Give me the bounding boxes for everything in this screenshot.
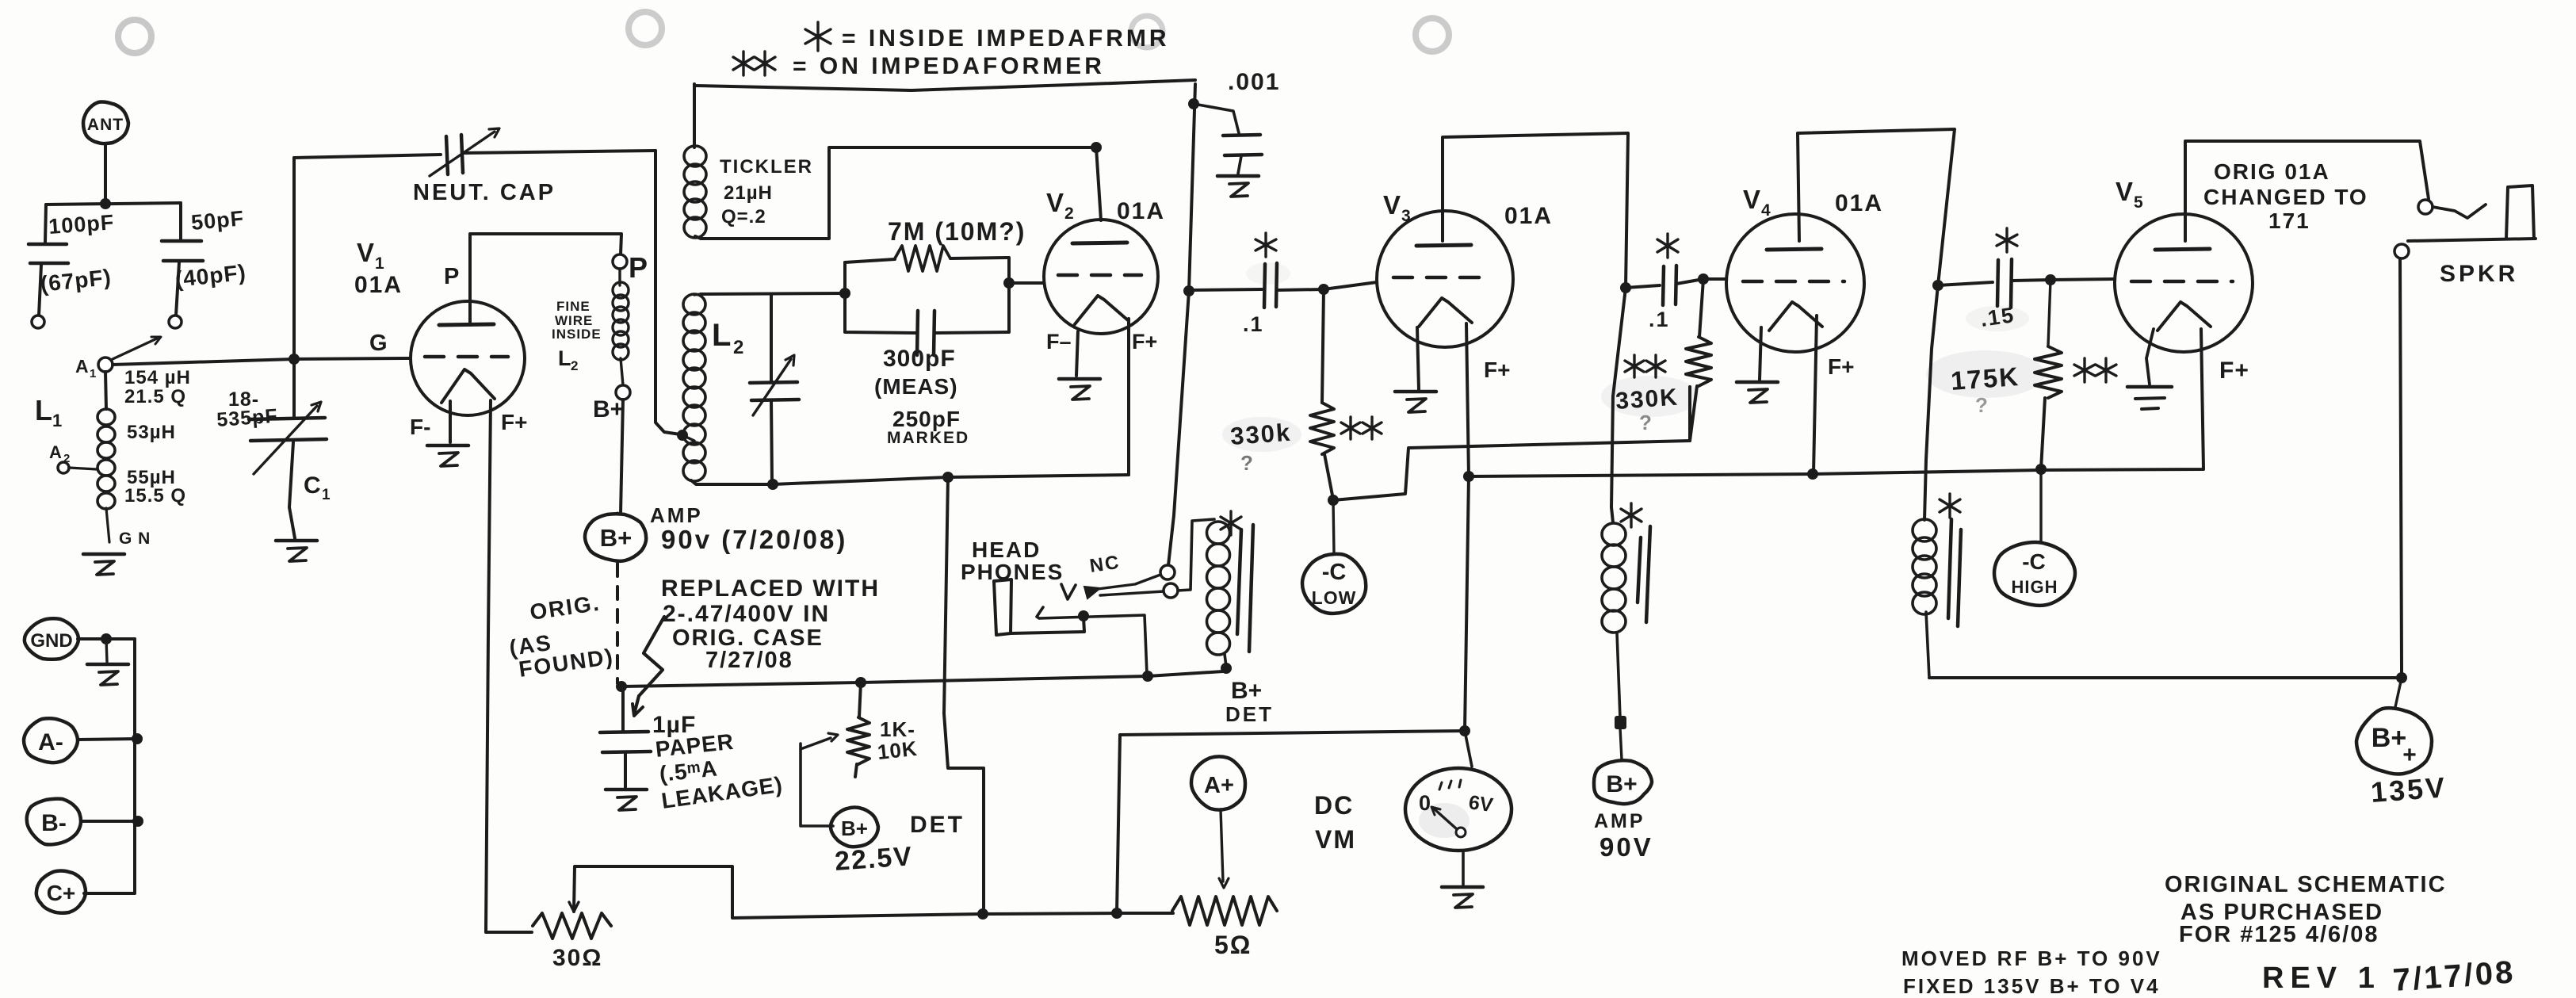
- svg-text:4: 4: [1761, 201, 1771, 220]
- speaker jack: [2506, 185, 2534, 239]
- grid leak box: [845, 258, 1009, 333]
- node V5 grid junction: [2045, 274, 2056, 285]
- svg-text:= ON IMPEDAFORMER: = ON IMPEDAFORMER: [793, 53, 1105, 79]
- node VM junction: [1459, 725, 1470, 736]
- svg-text:535pF: 535pF: [216, 405, 278, 431]
- node V4 F+ junction: [1807, 468, 1818, 480]
- label V2 01A: [1117, 198, 1165, 224]
- label 53uH: [127, 422, 176, 443]
- wire tip contact V: [1061, 584, 1076, 599]
- wire NC contact upper: [1098, 575, 1160, 589]
- svg-text:0: 0: [1419, 791, 1431, 815]
- wire ANT lead: [104, 143, 107, 204]
- svg-text:ORIGINAL SCHEMATIC: ORIGINAL SCHEMATIC: [2165, 872, 2447, 897]
- wire V4 F+ lead: [1814, 315, 1817, 473]
- wire grid bus A1 to V1: [113, 358, 409, 365]
- inductor impedaformer choke V3: [1602, 523, 1626, 718]
- punch hole: [629, 12, 662, 45]
- label REV 1: [2262, 962, 2381, 995]
- svg-text:HEAD: HEAD: [972, 537, 1041, 562]
- wire -C HIGH lead: [2039, 469, 2042, 541]
- label V4 F+: [1828, 354, 1854, 379]
- svg-text:= INSIDE IMPEDAFRMR: = INSIDE IMPEDAFRMR: [842, 25, 1170, 52]
- svg-text:MOVED RF B+ TO 90V: MOVED RF B+ TO 90V: [1901, 946, 2162, 970]
- svg-text:F+: F+: [2219, 358, 2249, 384]
- smudge: [1966, 306, 2029, 331]
- node riser bottom junction: [1111, 908, 1122, 919]
- terminal -C LOW: [1302, 554, 1366, 614]
- label V2 F+: [1132, 330, 1157, 354]
- svg-text:7M (10M?): 7M (10M?): [888, 217, 1026, 246]
- svg-text:MARKED: MARKED: [887, 429, 969, 447]
- svg-text:NEUT. CAP: NEUT. CAP: [413, 180, 556, 205]
- capacitor 1uF: [600, 686, 651, 787]
- label 18-535pF: [216, 388, 278, 431]
- svg-text:REV 1: REV 1: [2262, 962, 2381, 995]
- svg-text:AMP: AMP: [650, 503, 703, 527]
- label ? V5: [1975, 393, 1988, 417]
- svg-text:F+: F+: [501, 410, 527, 434]
- ground .001: [1217, 176, 1259, 197]
- node impedaformer bottom: [1221, 663, 1232, 674]
- wire Bpp lead: [2395, 678, 2402, 707]
- tube V5: [2115, 214, 2253, 352]
- svg-text:V: V: [357, 238, 374, 267]
- wire dashed orig: [616, 564, 619, 683]
- label L2: [712, 318, 743, 358]
- label 5ohm: [1214, 931, 1252, 959]
- resistor 175K: [2035, 280, 2062, 469]
- wire plug bottom lead: [1011, 618, 1084, 633]
- label V3: [1383, 190, 1411, 225]
- wire cap1 to V3 grid: [1277, 282, 1377, 290]
- svg-text:F–: F–: [1046, 330, 1072, 354]
- wire VM bus left: [1117, 731, 1465, 913]
- svg-text:2: 2: [571, 358, 578, 373]
- label 15.5Q: [124, 485, 186, 507]
- wire V1 F- lead: [449, 401, 452, 442]
- terminal B+ amp: [585, 514, 646, 561]
- wire neut top left: [294, 155, 441, 158]
- svg-text:330k: 330k: [1229, 419, 1292, 450]
- tube V1: [411, 301, 525, 415]
- label AMP 90V: [1594, 810, 1653, 862]
- svg-text:1: 1: [90, 367, 96, 380]
- svg-text:+: +: [2402, 742, 2417, 768]
- wire GND ground lead: [106, 639, 107, 662]
- inductor L2 secondary: [682, 294, 705, 481]
- wire V2 output drop: [1168, 84, 1195, 565]
- wire -C low bus: [1333, 387, 1690, 500]
- terminal 50pF end: [169, 315, 182, 328]
- label ? V3: [1240, 451, 1253, 475]
- svg-text:FIXED 135V B+ TO V4: FIXED 135V B+ TO V4: [1903, 974, 2161, 998]
- wire 50pF bottom lead: [176, 262, 179, 315]
- label FINE WIRE INSIDE: [552, 299, 602, 342]
- label V4 01A: [1835, 190, 1883, 216]
- svg-text:1: 1: [322, 487, 331, 503]
- label DC VM: [1314, 791, 1356, 854]
- wire neut drop to L2 tap: [655, 151, 680, 434]
- label .1 b: [1649, 308, 1670, 331]
- svg-text:01A: 01A: [1117, 198, 1165, 224]
- label SPKR: [2440, 261, 2518, 287]
- wire V3 plate loop: [1443, 133, 1628, 522]
- smudge: [1246, 262, 1290, 285]
- svg-text:01A: 01A: [1504, 203, 1553, 229]
- ground V1 F-: [427, 445, 468, 466]
- punch hole: [1416, 18, 1449, 52]
- label V1: [357, 238, 384, 273]
- svg-text:C+: C+: [47, 881, 76, 905]
- label NEUT. CAP: [413, 180, 556, 205]
- asterisk2 330K V4: [1625, 355, 1665, 377]
- wire jack bottom: [2408, 239, 2536, 241]
- asterisk cap1: [1256, 233, 1276, 257]
- jack triangle contact: [1084, 587, 1100, 598]
- svg-text:P: P: [444, 264, 459, 289]
- ground VM: [1442, 887, 1483, 908]
- svg-text:7/27/08: 7/27/08: [705, 648, 793, 673]
- svg-text:F+: F+: [1828, 354, 1854, 379]
- node A- junction: [132, 733, 143, 744]
- terminal B-: [27, 799, 81, 845]
- label 154uH 21.5Q: [124, 367, 191, 407]
- svg-text:30Ω: 30Ω: [552, 945, 602, 971]
- wire filament bus: [1469, 329, 2203, 476]
- label FIXED 135V: [1903, 974, 2161, 998]
- wire tickler bottom: [695, 147, 1094, 239]
- inductor L1 upper: [97, 372, 115, 509]
- svg-text:90v (7/20/08): 90v (7/20/08): [661, 525, 847, 554]
- resistor 5ohm: [1172, 897, 1277, 925]
- label .15: [1979, 303, 2016, 331]
- svg-text:22.5V: 22.5V: [834, 841, 914, 877]
- wire V2 F+ lead: [1127, 319, 1130, 475]
- ground L1: [83, 554, 124, 575]
- label GN: [119, 530, 151, 548]
- wire L1 bottom lead: [106, 508, 109, 542]
- node choke blob: [1615, 716, 1626, 729]
- inductor impedaformer choke V4: [1913, 519, 1936, 678]
- headphone plug: [994, 579, 1011, 635]
- node 1uF junction: [616, 681, 627, 692]
- label 175K: [1950, 361, 2020, 396]
- terminal C+: [36, 871, 86, 913]
- node pot junction: [855, 677, 866, 688]
- node V3 F+ bus junction: [1463, 471, 1474, 482]
- svg-text:300pF: 300pF: [883, 346, 956, 372]
- node L2 bottom junction: [767, 479, 778, 490]
- terminal ANT: [83, 102, 128, 144]
- wire V1 plate lead: [470, 234, 621, 325]
- wire V3 F- lead: [1417, 327, 1419, 389]
- svg-text:DC: DC: [1314, 791, 1354, 820]
- svg-text:21.5 Q: 21.5 Q: [124, 386, 186, 407]
- terminal A-: [24, 718, 78, 763]
- svg-text:5Ω: 5Ω: [1214, 931, 1252, 959]
- svg-text:HIGH: HIGH: [2012, 577, 2058, 597]
- resistor 330k V3: [1310, 289, 1334, 499]
- svg-text:V: V: [1383, 190, 1401, 220]
- node -C HIGH junction: [2035, 464, 2047, 475]
- svg-text:ORIG 01A: ORIG 01A: [2214, 159, 2330, 184]
- svg-text:171: 171: [2268, 208, 2310, 233]
- svg-text:01A: 01A: [354, 272, 403, 298]
- svg-text:TICKLER: TICKLER: [720, 156, 813, 178]
- wire right cap lead: [179, 203, 182, 239]
- wire to coupling cap 2: [1626, 285, 1660, 288]
- label HEAD PHONES: [961, 537, 1064, 584]
- svg-text:B+: B+: [593, 396, 624, 423]
- asterisk impedaformer: [1221, 511, 1241, 535]
- svg-text:FINE: FINE: [556, 299, 590, 314]
- asterisk2 175K: [2074, 358, 2116, 382]
- wire mid contact: [1037, 607, 1147, 675]
- wire V1 F+ lead long: [486, 400, 532, 932]
- label MARKED: [887, 429, 969, 447]
- ground 1uF: [606, 790, 647, 810]
- terminal B+ det: [831, 808, 878, 847]
- svg-text:A: A: [49, 442, 62, 462]
- smudge: [1222, 417, 1301, 452]
- svg-text:B+: B+: [600, 524, 633, 552]
- svg-text:?: ?: [1639, 411, 1652, 434]
- smudge: [1419, 803, 1470, 838]
- tube V3: [1377, 211, 1513, 347]
- svg-text:L: L: [558, 346, 571, 370]
- label 330K V4: [1615, 384, 1680, 415]
- legend asterisk-2 note: [733, 52, 1105, 79]
- svg-text:LOW: LOW: [1312, 587, 1357, 608]
- wire V4 plate loop: [1798, 129, 1955, 520]
- label (40pF): [174, 260, 247, 292]
- label 1uF: [652, 712, 696, 738]
- svg-text:VM: VM: [1315, 825, 1356, 854]
- capacitor 100pF: [29, 210, 115, 263]
- wire L2 bottom bus: [691, 475, 1129, 484]
- wire B- to bus: [81, 820, 138, 823]
- wire left cap lead: [45, 205, 46, 243]
- label P column L2: [558, 346, 578, 373]
- label MOVED RF: [1901, 946, 2162, 970]
- wire A+ arrow: [1219, 809, 1229, 888]
- wire VM lead: [1465, 731, 1472, 767]
- svg-text:.1: .1: [1243, 312, 1264, 336]
- label 22.5V: [834, 841, 914, 877]
- node Bpp junction: [2396, 672, 2407, 683]
- transformer core bars 1: [1237, 525, 1253, 652]
- label V5: [2115, 177, 2143, 212]
- svg-text:F+: F+: [1132, 330, 1157, 354]
- svg-text:21µH: 21µH: [724, 182, 773, 204]
- label V1 01A: [354, 272, 403, 298]
- smudge: [1926, 350, 2045, 398]
- ground GND: [87, 664, 128, 685]
- wire V2 F- lead: [1076, 331, 1078, 376]
- meter DC VM: [1405, 768, 1512, 851]
- terminal NC circle: [1160, 565, 1175, 579]
- svg-text:SPKR: SPKR: [2440, 261, 2518, 287]
- node A1: [98, 358, 113, 372]
- svg-text:?: ?: [1240, 451, 1253, 475]
- label V3 F+: [1484, 358, 1510, 382]
- label L1: [35, 394, 62, 430]
- label 300pF: [883, 346, 956, 372]
- asterisk cap3: [1997, 228, 2017, 252]
- node GND junction: [101, 633, 112, 644]
- label 1K-10K: [876, 717, 919, 764]
- label PAPER: [654, 729, 735, 762]
- svg-text:B+: B+: [2372, 723, 2406, 753]
- svg-text:50pF: 50pF: [190, 206, 245, 235]
- svg-text:B+: B+: [1231, 678, 1262, 704]
- terminal A2 tap: [58, 462, 97, 473]
- svg-text:Q=.2: Q=.2: [721, 206, 766, 228]
- label (MEAS): [874, 374, 958, 399]
- pot wiper arrow: [801, 733, 838, 749]
- label V1 P: [444, 264, 459, 289]
- label A1: [75, 356, 96, 380]
- ground V4 F-: [1737, 382, 1778, 403]
- ground V5 F-: [2127, 387, 2172, 409]
- svg-text:CHANGED TO: CHANGED TO: [2203, 185, 2368, 209]
- node V2 output junction: [1183, 285, 1194, 296]
- wire V4 F- lead: [1760, 327, 1761, 380]
- label 135V: [2370, 770, 2448, 809]
- svg-text:ANT: ANT: [87, 116, 124, 134]
- label B+ DET right: [1225, 678, 1274, 726]
- label ORIG 01A CHANGED: [2203, 159, 2368, 233]
- label FOR #125: [2179, 922, 2379, 947]
- node box left junction: [839, 288, 850, 299]
- svg-text:250pF: 250pF: [892, 407, 961, 431]
- wire VM ground lead: [1462, 851, 1465, 885]
- node box right junction: [1003, 277, 1015, 289]
- label REPLACED note: [661, 575, 880, 673]
- wire A1 selector arrow: [113, 337, 161, 359]
- transformer core bars V3: [1638, 526, 1650, 622]
- label 7/17/08: [2392, 954, 2517, 998]
- label ? V4: [1639, 411, 1652, 434]
- svg-text:AMP: AMP: [1594, 810, 1645, 832]
- asterisk2 330k V3: [1341, 417, 1382, 439]
- capacitor .001: [1188, 98, 1262, 174]
- svg-text:C: C: [304, 472, 321, 499]
- label ORIG (AS FOUND): [508, 591, 616, 682]
- label 7M (10M?): [888, 217, 1026, 246]
- label B+ column: [593, 396, 624, 423]
- wire L2 tuning cap bottom: [771, 400, 772, 483]
- svg-text:A-: A-: [38, 729, 63, 755]
- svg-text:INSIDE: INSIDE: [552, 327, 602, 342]
- wire NC contact lower: [1100, 591, 1164, 595]
- node B+det junction: [1142, 671, 1153, 682]
- svg-text:REPLACED WITH: REPLACED WITH: [661, 575, 880, 602]
- wire to coupling cap 3: [1938, 282, 1993, 285]
- resistor 330K V4: [1686, 279, 1711, 441]
- wire P column to Bplus: [621, 400, 623, 514]
- capacitor coupling .1 a: [1264, 263, 1277, 308]
- svg-text:135V: 135V: [2370, 770, 2448, 809]
- punch hole: [1131, 16, 1163, 48]
- svg-text:53µH: 53µH: [127, 422, 176, 443]
- svg-text:A+: A+: [1204, 773, 1234, 798]
- svg-text:NC: NC: [1088, 552, 1122, 577]
- capacitor coupling .15: [1997, 259, 2012, 308]
- svg-text:A: A: [75, 356, 89, 377]
- node -C LOW junction: [1328, 495, 1339, 506]
- svg-text:90V: 90V: [1599, 832, 1653, 862]
- inductor impedaformer primary: [1207, 522, 1230, 667]
- label AMP 90v date: [650, 503, 847, 554]
- label (67pF): [39, 265, 113, 296]
- svg-text:GND: GND: [30, 630, 72, 652]
- svg-text:F+: F+: [1484, 358, 1510, 382]
- asterisk choke V4: [1940, 494, 1960, 518]
- capacitor NEUT variable: [430, 128, 499, 176]
- wire A- to bus: [78, 739, 137, 740]
- wire V5 plate loop: [2185, 141, 2429, 241]
- label 250pF: [892, 407, 961, 431]
- wire V3 F+ lead: [1465, 323, 1469, 731]
- svg-text:G: G: [369, 331, 388, 356]
- transformer core bars V4: [1948, 519, 1961, 626]
- capacitor 50pF: [162, 206, 245, 261]
- node V2 plate junction: [1091, 142, 1102, 153]
- wire box to V2 grid: [1009, 281, 1044, 285]
- wire L2 drop to bottom: [944, 477, 984, 912]
- svg-text:L: L: [712, 318, 731, 353]
- svg-text:1: 1: [375, 254, 384, 273]
- svg-text:5: 5: [2134, 193, 2143, 212]
- svg-text:B+: B+: [1606, 771, 1637, 797]
- label LEAKAGE: [660, 772, 785, 813]
- label V2: [1046, 188, 1074, 223]
- svg-text:2-.47/400V IN: 2-.47/400V IN: [663, 601, 830, 627]
- terminal 100pF end: [32, 315, 44, 328]
- potentiometer 1K-10K: [847, 683, 869, 777]
- wire sleeve drop: [2400, 258, 2402, 678]
- wire choke V4 to Bpp: [1929, 676, 2402, 679]
- node V4 plate junction: [1932, 280, 1943, 291]
- ground C1: [276, 541, 317, 561]
- label V2 F-: [1046, 330, 1072, 354]
- svg-text:10K: 10K: [876, 736, 919, 764]
- terminal P top: [613, 254, 627, 269]
- svg-text:F-: F-: [410, 415, 430, 439]
- terminal -C HIGH: [1994, 542, 2075, 606]
- wire L2 tuning cap top: [770, 294, 773, 380]
- wire V2 plate lead: [1096, 147, 1101, 220]
- node B- junction: [132, 816, 143, 827]
- punch hole: [118, 20, 151, 53]
- svg-text:.001: .001: [1228, 69, 1280, 95]
- label V1 G: [369, 331, 388, 356]
- asterisk cap2: [1657, 234, 1678, 258]
- svg-text:(MEAS): (MEAS): [874, 374, 958, 399]
- wire neut top right: [464, 151, 655, 153]
- node bottom bus junction: [942, 472, 954, 483]
- svg-text:6V: 6V: [1467, 791, 1495, 816]
- label V1 F+: [501, 410, 527, 434]
- resistor 7M: [895, 246, 950, 271]
- legend asterisk-1 note: [805, 22, 1170, 52]
- label C1: [304, 472, 331, 503]
- svg-text:.1: .1: [1649, 308, 1670, 331]
- label V3 01A: [1504, 203, 1553, 229]
- svg-text:01A: 01A: [1835, 190, 1883, 216]
